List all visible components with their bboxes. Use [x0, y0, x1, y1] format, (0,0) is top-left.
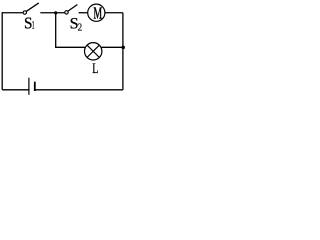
- svg-text:L: L: [92, 61, 98, 77]
- svg-text:2: 2: [78, 23, 83, 34]
- svg-text:1: 1: [32, 20, 35, 32]
- svg-text:M: M: [93, 3, 102, 22]
